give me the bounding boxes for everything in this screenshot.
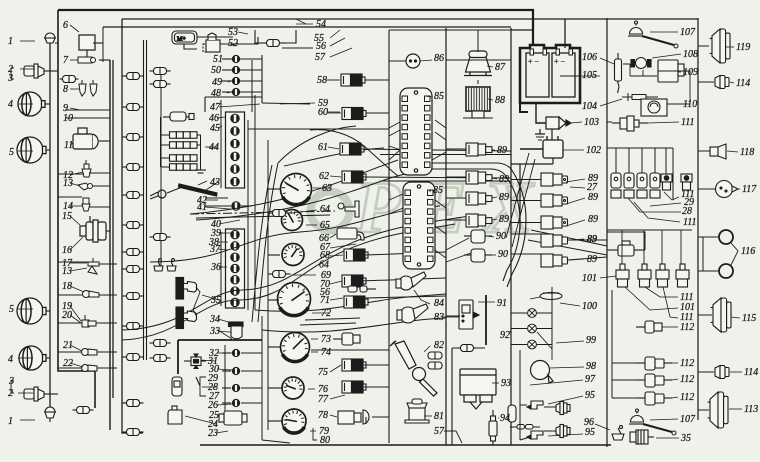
connector 64 [268,210,291,217]
leader 111t [648,122,679,123]
wire 56 left [255,30,266,43]
leader 105 [560,75,580,77]
handle 66 [337,228,364,240]
connector col-1 [123,400,144,407]
svg-text:97: 97 [585,374,596,385]
watermark ring [311,192,350,231]
svg-text:65: 65 [320,220,330,231]
wire g63 [268,188,280,190]
wire g74 [268,346,280,348]
wires 95 plugs [544,407,556,431]
leader 32 [217,352,232,354]
svg-text:60: 60 [318,107,328,118]
socket 86 [406,54,420,68]
bus x262 [261,316,263,440]
harness curve 1 [122,224,455,340]
ring 116a [719,230,733,244]
relay 31 [184,354,206,369]
wire 59 row [262,103,310,104]
svg-text:41: 41 [197,202,207,213]
svg-text:93: 93 [501,378,511,389]
fuse holder 34 [229,322,244,339]
ignition coil 35 b [176,307,197,329]
svg-text:36: 36 [210,262,221,273]
svg-text:81: 81 [434,411,444,422]
leader 99 [556,341,584,343]
leader 45 [217,117,225,118]
panel divider x511 [510,28,512,445]
wire 87 88 [477,30,479,84]
diag single 1 [506,153,529,238]
right panel right edge [697,18,699,420]
wire 70 out [360,278,446,281]
resistor 44 row [161,142,198,149]
svg-text:101: 101 [582,273,597,284]
leader 8 [70,88,79,90]
leader 52 [230,43,238,46]
wire 78 out [372,416,389,418]
leader 86 [420,60,432,61]
gauge 74 [281,333,310,362]
svg-text:2: 2 [8,388,13,399]
l89i [570,259,584,260]
svg-text:112: 112 [680,322,694,333]
switch 60 [342,108,366,120]
leader 81 [424,415,432,417]
spark plug 89 b [466,171,492,184]
spark plug 89 d [466,214,492,227]
leader line [20,419,35,421]
plug 89 e [511,173,568,186]
stub 18 [58,294,82,296]
l89a [492,149,495,151]
connector under 83 [458,345,477,352]
lamp 92 c [528,340,537,349]
leaders 29/28 [628,198,681,222]
knob 64b [338,201,359,217]
lamp 92 b [528,324,537,333]
wire 46 [186,116,189,118]
switch 76 sender [342,381,366,393]
lamp bus right [261,55,263,103]
wires 112 [612,290,636,398]
leader 55 [330,30,340,38]
svg-text:73: 73 [321,334,331,345]
resistor 88 [466,87,490,111]
svg-text:10: 10 [63,113,73,124]
harness curve 8 [310,130,398,176]
plug 112 [636,374,672,387]
wire 44 right2 [197,144,201,146]
svg-text:103: 103 [584,117,599,128]
fuse 104 [622,93,658,101]
plug 89-27 [650,173,660,198]
wire 102 to panel [511,163,553,165]
svg-text:35: 35 [210,295,221,306]
l112b [672,379,678,380]
lamp 49 [232,77,240,84]
leader 56 [330,38,345,46]
wire between blocks [247,196,249,228]
svg-text:90: 90 [496,231,506,242]
svg-text:84: 84 [434,298,444,309]
leader 13 [70,183,80,186]
connector col-1 [123,222,144,229]
connector col-1 [123,323,144,330]
battery wire down [520,70,528,112]
wire g72 [268,299,279,301]
wires conn83 [452,347,485,349]
switch 58 [341,74,365,86]
svg-text:107: 107 [680,414,696,425]
bracket 2-3 top [11,68,14,79]
connector 56 mid [348,286,376,292]
leader 37 [218,249,228,250]
harness curve 2 [122,216,470,330]
leader 51 [229,58,232,60]
plug 112 [636,392,672,405]
leader 78 [330,415,337,417]
leader 87 [487,66,493,67]
ring 116b [719,264,733,278]
fuse 94 [489,410,497,445]
lamp in block [231,253,240,261]
wire to 103 [536,108,546,123]
sensor plug 101 [676,264,689,287]
harness curve 9 [284,148,384,166]
wire lamp 51 [240,58,262,60]
leader 73 [311,338,318,340]
switch 62 [342,171,366,183]
l112c [672,397,678,398]
panel divider low [388,268,390,443]
bracket 79-80 [313,428,317,440]
svg-text:91: 91 [497,298,507,309]
leader 106 [600,58,614,64]
svg-text:119: 119 [736,42,750,53]
wire g67 [268,254,280,256]
svg-text:108: 108 [683,49,698,60]
lamp in block [231,139,240,147]
connector pair 82 [428,352,442,369]
leader 35 [202,295,219,300]
bus 92 right [551,287,553,349]
lever 43 [150,184,217,199]
leader 59 [280,103,315,104]
svg-text:115: 115 [742,313,756,324]
svg-text:111: 111 [683,217,697,228]
svg-text:6: 6 [63,20,68,31]
svg-text:33: 33 [209,326,220,337]
leader 75 [330,365,341,372]
wire under 72b [300,323,356,325]
bus 33 [178,339,262,341]
bracket 29-27 [200,377,206,396]
leader 65 [306,224,317,226]
bus x146 [146,40,148,360]
svg-text:94: 94 [500,413,510,424]
plug 95 top [556,402,570,415]
leader 15 [70,216,80,225]
svg-text:63: 63 [322,183,332,194]
connector col-1 [123,104,144,111]
wire 4 [45,103,50,105]
connector 2-3 top [24,64,44,78]
lamp in block [231,114,240,122]
wire spark plug 89 b [446,176,466,178]
headlamp 4 bottom [19,346,46,370]
headlamp 4 top [18,92,45,116]
svg-text:102: 102 [586,145,601,156]
horn lever 107 [642,36,674,45]
svg-text:71: 71 [320,295,330,306]
harness curve 6 [255,294,446,311]
wire 46 l [163,116,170,118]
leader 96 [595,424,610,430]
leader 62 [330,176,341,177]
svg-text:114: 114 [744,367,758,378]
plug 112 [636,357,672,370]
svg-text:74: 74 [321,347,331,358]
plug 89 g [511,216,568,229]
svg-text:50: 50 [211,65,221,76]
headlamp 5 top [17,137,46,163]
wires 92 left [511,313,527,345]
leader 74 [311,351,318,353]
bus x520 [519,164,521,230]
wire lamp r [241,370,262,372]
bundle strand 2 [430,169,520,281]
leader 115 [731,317,740,318]
wires 92 right [536,313,552,345]
bus x110 [109,60,111,430]
lamp in block [231,242,240,250]
switch 61 [340,143,364,155]
gauge 72 [278,283,311,316]
curve left gauges 2 [252,165,272,322]
wire 101 top [607,232,645,250]
wire lamp l [222,352,231,354]
switch 18 [83,291,100,298]
bus 95 [520,350,530,440]
bus x143 [143,40,145,360]
leader 111c [663,287,678,318]
resistor 88 base [463,111,493,118]
gauge 79 [282,409,306,433]
leader 60 [328,111,340,113]
wire lamp l [222,370,231,372]
leader 26 [217,404,232,405]
plug 89 f [511,194,568,207]
horn 107 bottom [629,409,645,424]
wire 56 branch [282,47,313,49]
l89b [492,178,497,179]
leader 101 [600,276,616,278]
coil 81 [405,399,429,423]
leader 102 [563,149,584,151]
wires 90 right [511,234,541,254]
curve top gauges [278,126,356,163]
leader 77 [330,395,345,399]
svg-text:8: 8 [63,84,68,95]
lamp 48 [232,88,240,95]
resistor 44 row [161,132,198,139]
leader 97 [530,380,583,385]
stub 111 [607,121,612,123]
wire top bat [511,29,533,31]
svg-text:28: 28 [682,206,692,217]
lamp in block [231,127,240,135]
fuses 8 [79,80,97,96]
switch 75 [342,359,366,371]
svg-text:58: 58 [317,75,327,86]
leader 60b [327,112,341,114]
leader 114b [730,371,742,373]
svg-text:88: 88 [495,95,505,106]
connector col-1 [123,354,144,361]
svg-text:1: 1 [8,416,13,427]
svg-text:72: 72 [321,308,331,319]
leader 6 [70,25,79,32]
box 93 [460,369,496,409]
svg-text:44: 44 [209,142,219,153]
leader 68 [330,255,343,256]
wire under lamps [205,96,262,98]
leader 40 [219,220,240,224]
connector 56 [261,40,286,47]
svg-text:M+: M+ [177,37,186,43]
leader line [18,308,33,310]
svg-text:107: 107 [680,27,696,38]
bus x268 [267,140,269,430]
bracket 2-3 bottom [11,381,14,393]
leader 67 [330,244,356,248]
svg-text:89: 89 [499,174,509,185]
fuse block bottom [226,229,245,308]
svg-text:90: 90 [498,249,508,260]
spark plug 89 a [466,143,492,156]
leader 33b [218,330,232,339]
svg-text:112: 112 [680,392,694,403]
wire 42 row [205,197,228,199]
leader 91 [478,301,495,303]
connector 111 top [612,116,648,131]
panel divider x389 [388,30,390,268]
wire 53 to 52 [197,36,233,38]
wire lamp 50 [240,69,262,71]
leader 7 [70,59,78,61]
leader 16 [70,237,83,250]
l90b [487,254,496,256]
leader 25 [217,415,225,417]
leader 118 [727,151,738,152]
curve left gauges 1 [258,163,278,322]
leader 85b [429,190,431,192]
bus 44 [160,117,162,167]
leader 54b [296,19,306,24]
panel top link [446,30,511,60]
svg-text:89: 89 [587,254,597,265]
l89d [492,219,497,220]
gauge 65 [282,210,303,231]
starter 11 [73,128,98,149]
leader line [20,40,35,42]
leader 57b [444,431,462,443]
relay 109 [658,60,684,82]
leader 103 [571,122,582,123]
diag 92 [537,332,552,360]
svg-text:106: 106 [582,52,597,63]
wire 6 down [86,50,88,57]
lamp in block [231,165,240,173]
lamp 41 [232,202,241,210]
wire 12 right [89,172,110,174]
socket 117 [716,181,739,198]
leader 109 [678,71,681,73]
svg-text:64: 64 [320,204,330,215]
wires 90 to panel [568,240,607,260]
marker lamp 1 bottom [44,407,56,422]
wire lamp 50 l [222,69,232,71]
wiper motor 23 [219,411,247,425]
horn 107 top [628,21,644,36]
svg-text:111: 111 [681,117,695,128]
svg-text:62: 62 [319,171,329,182]
leader 84 [421,300,430,304]
plug 118 [710,144,726,159]
stub 22 [58,367,81,369]
leader 43 [206,182,218,190]
wire 19 right [96,322,117,324]
panel 83 [459,300,479,329]
sealed beam 115 [711,298,731,332]
relay block 85 bottom [403,182,435,269]
connector col-1 [123,249,144,256]
connector col-2 [150,234,171,241]
svg-text:113: 113 [744,404,758,415]
wire lamp 48 [240,91,262,93]
wire lamp r [241,402,262,404]
wire 22 right [97,367,117,369]
svg-text:4: 4 [8,99,13,110]
bundle strand 1 [430,163,526,287]
leader 33 [218,331,240,333]
bus 91 [485,295,487,345]
wire lamp l [222,402,231,404]
stub wires right [698,46,718,410]
gauge 67 ammeter [282,244,304,266]
wiper 82 [390,341,437,396]
wire 14 right [89,206,110,208]
toggle 96b [612,426,624,441]
svg-text:104: 104 [582,101,597,112]
wire 2-3b [44,393,58,395]
panel top [389,29,511,31]
switch 68 [344,249,368,261]
generator 16 [80,216,106,242]
leader 114 [730,82,734,83]
svg-text:5: 5 [9,147,14,158]
sensor bus [607,229,692,231]
leader 85 [425,96,432,97]
vertical bus x161 [160,69,162,270]
svg-text:+ −: + − [528,57,540,66]
wire spark plug 89 a [446,148,466,150]
svg-text:54: 54 [316,19,326,30]
wire 13 right [92,185,110,187]
leader 71 [330,298,343,300]
wire 58 out [365,79,389,81]
